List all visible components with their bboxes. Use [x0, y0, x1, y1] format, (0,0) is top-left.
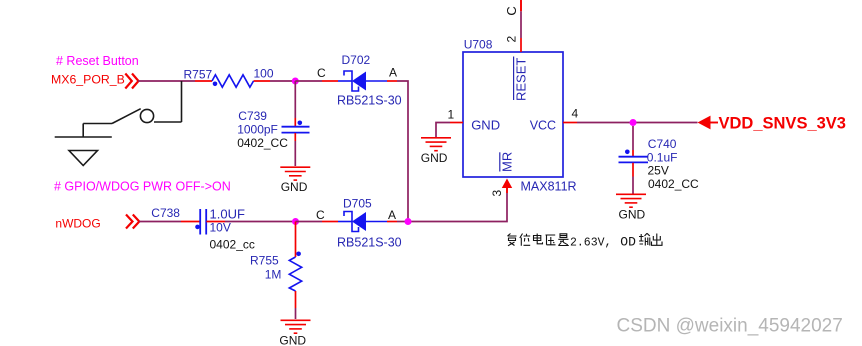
wire pin3 down and left to lower net [408, 193, 507, 222]
junction node at R755 [292, 218, 299, 225]
svg-text:GND: GND [281, 180, 308, 194]
pin 2 wire up from RESET [520, 0, 522, 52]
svg-text:C738: C738 [151, 206, 180, 220]
svg-text:C739: C739 [238, 109, 267, 123]
svg-text:0402_CC: 0402_CC [237, 136, 288, 150]
svg-text:VDD_SNVS_3V3: VDD_SNVS_3V3 [719, 115, 846, 133]
svg-text:4: 4 [572, 107, 579, 121]
capacitor C740 [619, 126, 649, 194]
svg-text:0402_cc: 0402_cc [210, 238, 255, 252]
junction node at D705 anode [405, 218, 412, 225]
svg-text:GND: GND [619, 208, 646, 222]
svg-text:10V: 10V [210, 221, 231, 235]
glyph 位 [520, 234, 530, 246]
glyph 电 [534, 234, 543, 244]
svg-text:0402_CC: 0402_CC [648, 177, 699, 191]
pin 4 stub [563, 122, 577, 124]
glyph 是 [558, 234, 569, 246]
ground at U708 pin1 [421, 138, 451, 151]
diode D702 RB521S-30 [322, 71, 397, 91]
svg-text:# GPIO/WDOG PWR OFF->ON: # GPIO/WDOG PWR OFF->ON [54, 180, 231, 194]
svg-text:MR: MR [500, 152, 515, 172]
svg-text:1: 1 [448, 108, 455, 122]
off-page connector chevron nWDOG [126, 215, 139, 229]
pin number 3 (rotated) [490, 190, 504, 197]
glyph 复 [508, 234, 517, 246]
wire pin1 to ground [436, 123, 450, 138]
capacitor C738 [181, 209, 225, 235]
resistor R757 [195, 75, 270, 87]
push button SW1 [55, 109, 182, 137]
svg-text:0.1uF: 0.1uF [647, 151, 678, 165]
glyph 压 [546, 235, 556, 245]
svg-text:D702: D702 [342, 53, 371, 67]
wire pin4 to VDD_SNVS_3V3 [577, 122, 698, 124]
svg-text:MAX811R: MAX811R [521, 180, 577, 194]
svg-text:A: A [388, 208, 396, 222]
svg-text:# Reset Button: # Reset Button [56, 54, 139, 68]
svg-text:VCC: VCC [530, 119, 556, 133]
capacitor C739 [282, 81, 310, 166]
svg-text:25V: 25V [648, 164, 669, 178]
svg-text:CSDN @weixin_45942027: CSDN @weixin_45942027 [617, 316, 843, 337]
pin 1 stub [450, 122, 463, 124]
pin number 2 (rotated) [505, 36, 519, 43]
svg-text:RB521S-30: RB521S-30 [337, 236, 402, 250]
svg-text:nWDOG: nWDOG [55, 217, 100, 231]
power port arrow VDD_SNVS_3V3 [698, 116, 719, 130]
junction node at C739 [292, 78, 299, 85]
glyph 输 [639, 233, 650, 245]
svg-text:1M: 1M [265, 268, 282, 282]
svg-text:GND: GND [471, 118, 500, 133]
glyph 出 [652, 234, 663, 246]
diode D705 RB521S-30 [322, 212, 397, 232]
svg-text:OD: OD [620, 234, 636, 249]
net label C (rotated) [504, 6, 519, 15]
wire D702 anode down to lower net [397, 81, 408, 222]
svg-text:1000pF: 1000pF [237, 123, 278, 137]
svg-text:GND: GND [421, 151, 448, 165]
wire D705 anode to junction [397, 221, 408, 223]
pin name MR (rotated, with overbar) [500, 152, 515, 172]
svg-text:R757: R757 [184, 68, 213, 82]
wire button tap vertical [181, 81, 183, 122]
svg-text:1.0UF: 1.0UF [210, 207, 245, 222]
off-page connector chevron MX6_POR_B [125, 74, 138, 89]
wire junction to D702 [295, 80, 322, 82]
svg-text:RB521S-30: RB521S-30 [337, 94, 402, 108]
svg-text:C740: C740 [648, 137, 677, 151]
IC U708 MAX811R body [463, 52, 563, 177]
svg-text:D705: D705 [343, 197, 372, 211]
ground at C739 [280, 167, 310, 180]
pin name RESET (rotated, with overbar) [514, 57, 529, 102]
svg-text:2.63V: 2.63V [570, 236, 605, 249]
svg-text:C: C [504, 6, 519, 15]
svg-text:C: C [316, 208, 325, 222]
svg-text:R755: R755 [250, 254, 279, 268]
wire C738 to junction [225, 221, 296, 223]
svg-text:3: 3 [490, 190, 504, 197]
ground triangle at button [69, 151, 98, 166]
svg-text:C: C [317, 66, 326, 80]
svg-text:U708: U708 [464, 38, 493, 52]
svg-text:GND: GND [279, 334, 306, 346]
ground at C740 [616, 194, 646, 207]
pin 3 stub with input arrow [502, 179, 512, 194]
svg-text:,: , [605, 235, 612, 249]
junction node at C740 [630, 119, 637, 126]
svg-text:MX6_POR_B: MX6_POR_B [51, 73, 125, 87]
wire MX6_POR_B to R757 [138, 80, 195, 82]
wire junction to D705 [296, 221, 323, 223]
annotation chinese: 复位电压是2.63V，OD输出 [508, 234, 569, 246]
wire R757 to junction [270, 80, 295, 82]
svg-text:2: 2 [505, 36, 519, 43]
wire nWDOG to C738 [139, 221, 181, 223]
svg-text:100: 100 [254, 67, 274, 81]
resistor R755 [289, 222, 301, 320]
svg-text:A: A [389, 66, 397, 80]
svg-text:RESET: RESET [514, 58, 529, 101]
ground at R755 [281, 320, 311, 333]
